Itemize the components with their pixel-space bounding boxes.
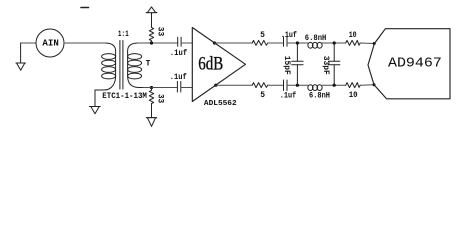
source AIN — [36, 29, 64, 57]
svg-text:1:1: 1:1 — [118, 30, 129, 39]
wire (secondary top to amp input cap) — [137, 42, 178, 44]
svg-text:10: 10 — [349, 31, 357, 40]
ADC U2 AD9467 body — [368, 29, 450, 99]
wire — [287, 42, 308, 44]
svg-text:.1uf: .1uf — [280, 92, 297, 101]
capacitor .1uf (amp input, top) — [178, 37, 193, 46]
resistor R 10 (bottom) — [346, 83, 361, 88]
node (bottom shunt cap 2) — [333, 84, 336, 87]
svg-text:5: 5 — [260, 91, 265, 100]
capacitor .1uf (amp input, bottom) — [177, 82, 192, 93]
node (top shunt cap 2) — [333, 41, 336, 44]
wire (secondary bottom to amp input cap) — [143, 87, 177, 89]
wire (ground to AIN source) — [21, 42, 36, 44]
svg-text:33: 33 — [155, 94, 164, 103]
node (amp output top tap) — [213, 41, 216, 44]
node (ADC bottom input pin) — [373, 83, 376, 86]
label minus dash (top left) — [81, 7, 89, 9]
svg-text:5: 5 — [260, 31, 265, 40]
capacitor .1uf (output coupling, bottom) — [284, 80, 288, 91]
svg-text:.1uf: .1uf — [170, 73, 187, 82]
svg-text:ETC1-1-13M: ETC1-1-13M — [102, 92, 147, 101]
svg-text:.1uf: .1uf — [281, 31, 297, 40]
svg-text:AIN: AIN — [42, 38, 59, 49]
node (bottom shunt cap 1) — [296, 84, 299, 87]
resistor R 33 (top, to upper ground) — [149, 13, 153, 43]
svg-text:6.8nH: 6.8nH — [305, 34, 327, 43]
resistor R 5 (top) — [252, 40, 268, 45]
svg-text:33: 33 — [156, 27, 165, 37]
wire — [322, 42, 346, 44]
wire — [268, 84, 284, 86]
node (bottom 33 junction) — [150, 86, 153, 89]
resistor R 5 (bottom) — [252, 83, 268, 88]
transformer T secondary winding — [128, 43, 143, 88]
transformer T primary winding — [95, 43, 116, 90]
svg-text:10: 10 — [349, 91, 358, 100]
inductor L 6.8nH (top) — [308, 42, 322, 48]
ground (below bottom 33) — [146, 117, 156, 119]
svg-text:AD9467: AD9467 — [388, 56, 442, 72]
capacitor 33pF (shunt) — [329, 43, 340, 85]
svg-text:6.8nH: 6.8nH — [309, 91, 330, 100]
wire — [322, 84, 346, 86]
ground (up arrow above top 33) — [146, 12, 157, 14]
svg-text:6dB: 6dB — [198, 54, 223, 74]
node (amp output bottom tap) — [214, 84, 217, 87]
capacitor .1uf (output coupling, top) — [284, 37, 288, 47]
wire — [268, 42, 284, 44]
svg-text:15pF: 15pF — [282, 56, 291, 75]
svg-text:ADL5562: ADL5562 — [204, 100, 237, 108]
node (top shunt cap 1) — [296, 41, 299, 44]
wire (to ADC top input) — [360, 42, 374, 45]
resistor R 10 (top) — [346, 40, 361, 45]
svg-text:33pF: 33pF — [321, 56, 330, 75]
wire — [287, 84, 308, 86]
resistor R 33 (bottom, to lower ground) — [149, 88, 153, 118]
wire (amp bottom output to R5) — [216, 84, 252, 86]
inductor L 6.8nH (bottom) — [308, 85, 322, 91]
op-amp U1 ADL5562 triangle — [192, 28, 245, 102]
transformer core — [120, 41, 123, 90]
node (top 33 junction) — [150, 41, 153, 44]
ground (transformer primary return) — [89, 90, 100, 114]
capacitor 15pF (shunt) — [292, 43, 303, 85]
node (ADC top input pin) — [373, 42, 376, 45]
svg-text:T: T — [146, 60, 151, 69]
wire (AIN to transformer primary) — [64, 42, 106, 44]
wire (to ADC bottom input) — [360, 84, 374, 87]
ground (input, left of AIN) — [16, 43, 26, 70]
svg-text:.1uf: .1uf — [170, 49, 188, 58]
wire (amp top output to R5) — [215, 42, 253, 44]
